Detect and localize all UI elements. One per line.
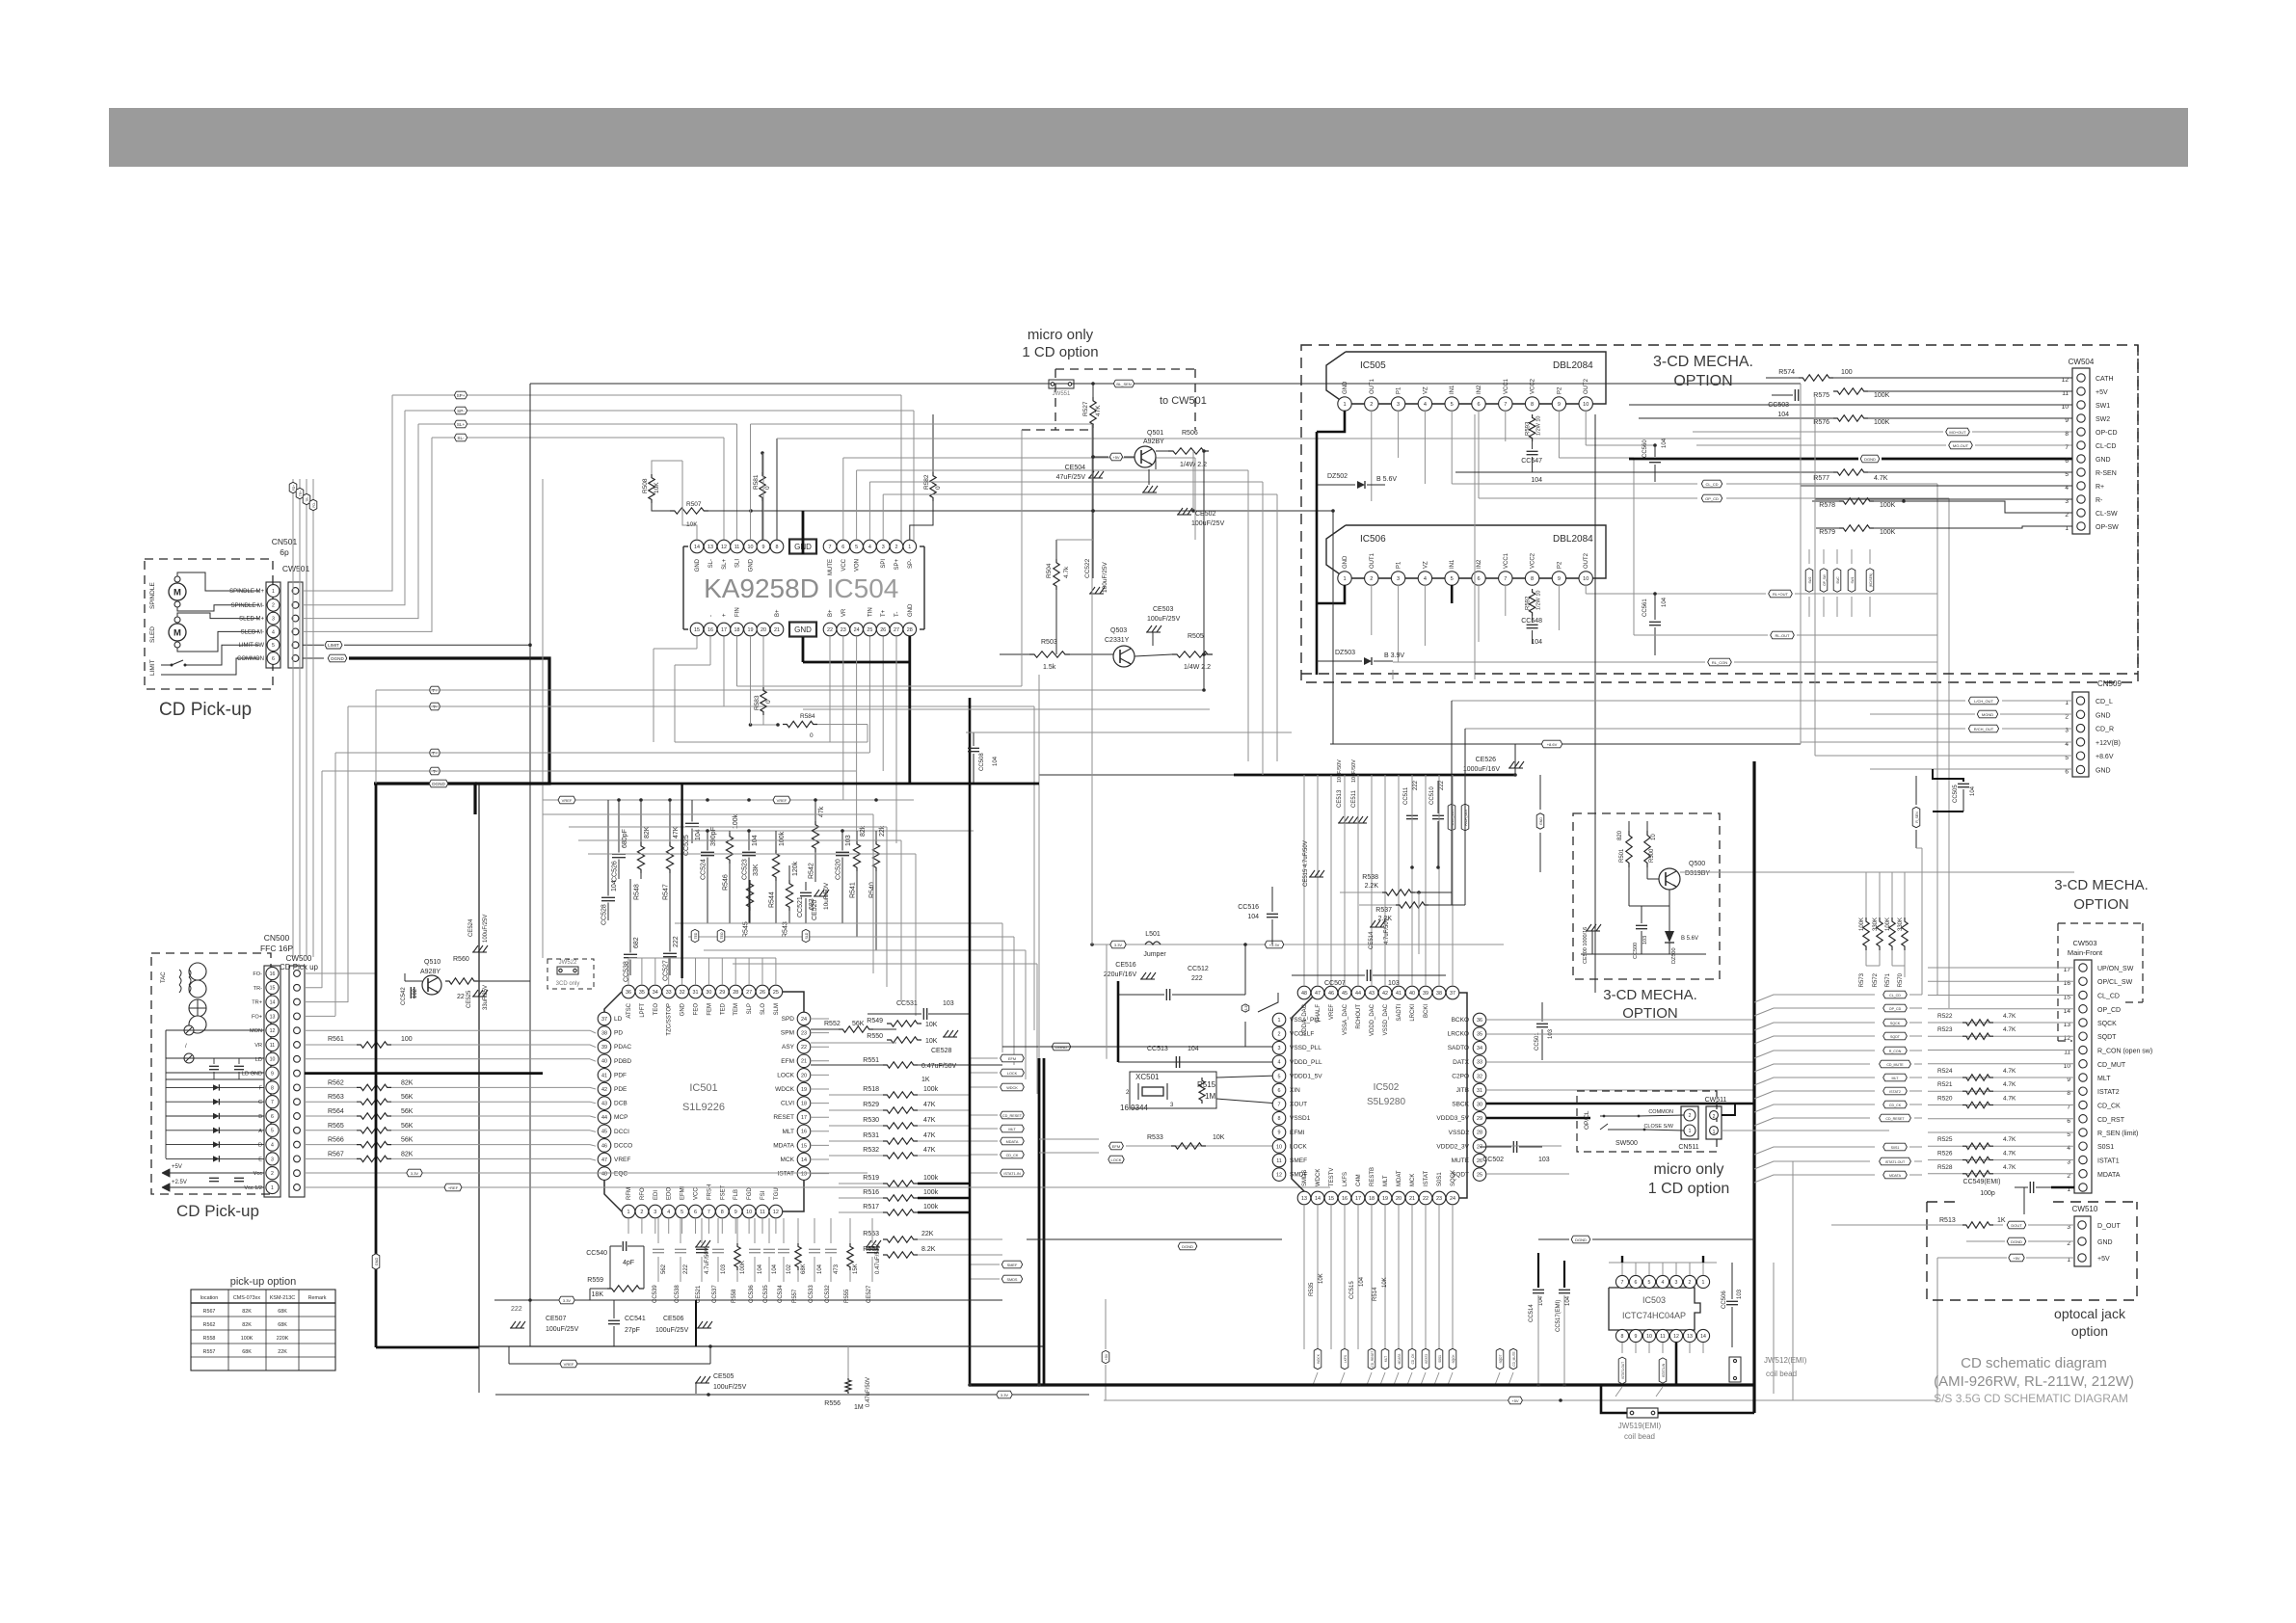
svg-text:DCCO: DCCO — [614, 1142, 632, 1149]
svg-text:CC523: CC523 — [742, 859, 749, 880]
svg-text:4: 4 — [271, 1143, 274, 1149]
net label WDCK — [1314, 1348, 1322, 1369]
photodiode array diodes — [166, 1086, 264, 1088]
svg-text:CC521: CC521 — [797, 896, 804, 918]
svg-text:21: 21 — [801, 1059, 807, 1065]
svg-text:+5V: +5V — [2013, 1256, 2020, 1261]
svg-text:R532: R532 — [863, 1147, 879, 1154]
svg-text:C: C — [258, 1100, 262, 1105]
svg-text:EFM: EFM — [781, 1058, 794, 1065]
bus SL- wire — [432, 437, 724, 439]
svg-text:LIMIT: LIMIT — [328, 643, 339, 648]
svg-text:100uF/25V: 100uF/25V — [655, 1327, 689, 1334]
wire to net label — [1074, 383, 1110, 385]
svg-text:ISTAT2: ISTAT2 — [2097, 1089, 2120, 1096]
svg-text:CC524: CC524 — [701, 859, 707, 880]
net label CD_CK (right column) — [1883, 1101, 1908, 1108]
svg-text:22K: 22K — [278, 1349, 287, 1355]
svg-text:+5V: +5V — [1511, 1398, 1519, 1403]
svg-text:473: 473 — [834, 1264, 840, 1274]
svg-text:4: 4 — [1424, 576, 1427, 582]
svg-text:SQDT: SQDT — [1890, 1035, 1901, 1039]
svg-text:5: 5 — [1451, 576, 1454, 582]
svg-text:VREF: VREF — [562, 798, 573, 803]
svg-text:34: 34 — [653, 990, 658, 996]
net label (MD/SEN) — [1866, 569, 1874, 593]
svg-text:26: 26 — [880, 627, 886, 633]
svg-text:RCHOUT: RCHOUT — [1356, 1004, 1362, 1029]
svg-text:OP/CL_SW: OP/CL_SW — [2097, 979, 2133, 986]
svg-text:ISTAT2: ISTAT2 — [1425, 1354, 1428, 1365]
svg-text:14: 14 — [270, 1000, 276, 1006]
IC504 top pin row 7..1 — [823, 540, 837, 553]
IC504 GND box top — [789, 540, 816, 554]
wire spindle motor to CN501 — [177, 572, 259, 591]
svg-text:R_SEN: R_SEN — [1915, 811, 1919, 823]
svg-text:1: 1 — [908, 545, 911, 550]
svg-text:+2.5V: +2.5V — [172, 1180, 187, 1185]
svg-text:100K: 100K — [241, 1336, 254, 1342]
svg-text:SPM: SPM — [781, 1030, 794, 1037]
svg-text:SLI: SLI — [735, 559, 741, 568]
wires IC505 pins down — [1371, 411, 1373, 501]
resistor R581 0 — [760, 472, 765, 501]
component R555 15K — [849, 1218, 851, 1243]
svg-text:WDCK: WDCK — [1006, 1086, 1018, 1090]
capacitor CC538 682 — [629, 879, 631, 953]
svg-text:VSSD2: VSSD2 — [1449, 1130, 1470, 1136]
svg-text:104: 104 — [817, 1264, 823, 1274]
svg-text:CD_RESET: CD_RESET — [1885, 1117, 1905, 1121]
wires CW504 rows SW1/SW2 — [1629, 404, 2072, 406]
svg-text:LIMIT SW: LIMIT SW — [238, 643, 264, 649]
svg-text:12: 12 — [1276, 1173, 1282, 1179]
net label EFM — [1001, 1054, 1025, 1062]
svg-text:11: 11 — [270, 1043, 275, 1049]
svg-text:SL-: SL- — [457, 436, 465, 440]
svg-text:B+: B+ — [775, 609, 781, 617]
svg-text:56K: 56K — [852, 1021, 865, 1027]
svg-text:100K: 100K — [740, 1261, 746, 1274]
svg-text:8: 8 — [1531, 576, 1534, 582]
net label ISTAT2 — [1422, 1348, 1429, 1369]
net label SW2 — [1805, 569, 1813, 593]
svg-text:IC502: IC502 — [1374, 1082, 1400, 1093]
svg-text:1.5k: 1.5k — [1043, 664, 1056, 671]
svg-text:CE500 1000/16: CE500 1000/16 — [1583, 927, 1589, 964]
svg-text:MDATA: MDATA — [1398, 1353, 1402, 1365]
wires IC504 area horizontals — [751, 423, 1095, 425]
svg-text:R545: R545 — [743, 921, 750, 938]
wire LD GND thick — [305, 1072, 543, 1075]
svg-text:24: 24 — [801, 1017, 807, 1023]
net label T+ (upper) — [429, 686, 440, 694]
svg-text:16: 16 — [707, 627, 713, 633]
svg-text:26: 26 — [1477, 1158, 1482, 1164]
svg-text:FO+: FO+ — [252, 1014, 262, 1020]
bold GND stub bottom — [802, 637, 805, 662]
svg-text:18K: 18K — [592, 1291, 604, 1298]
svg-text:1 CD option: 1 CD option — [1022, 344, 1098, 360]
svg-text:B 3.9V: B 3.9V — [1384, 652, 1404, 659]
svg-text:RL-OUT: RL-OUT — [1775, 633, 1790, 638]
svg-text:1K: 1K — [1997, 1217, 2006, 1224]
net label CD_RESET — [1368, 1348, 1375, 1369]
svg-text:R+: R+ — [2096, 484, 2104, 491]
svg-text:14: 14 — [694, 545, 700, 550]
svg-text:SP+: SP+ — [457, 393, 466, 398]
svg-text:FRSH: FRSH — [707, 1184, 712, 1200]
svg-text:10: 10 — [2062, 404, 2069, 411]
svg-text:1M: 1M — [1205, 1092, 1215, 1101]
svg-text:SW1: SW1 — [2096, 403, 2110, 410]
component CC537 103 — [717, 1218, 719, 1243]
svg-text:R507: R507 — [686, 501, 702, 508]
svg-text:CC526: CC526 — [612, 861, 619, 882]
svg-text:32: 32 — [1477, 1074, 1482, 1079]
svg-text:MLT: MLT — [1383, 1175, 1389, 1186]
svg-text:S0S1: S0S1 — [2097, 1144, 2114, 1151]
long left vertical rail x=550 — [529, 384, 531, 1300]
svg-text:11: 11 — [2062, 390, 2069, 397]
IC502 top pins 48..37 — [1297, 986, 1311, 999]
svg-text:4: 4 — [2065, 485, 2069, 492]
wires from IC501 right pins — [811, 1018, 829, 1020]
svg-text:18: 18 — [1369, 1196, 1375, 1202]
svg-text:30: 30 — [1477, 1103, 1482, 1108]
wire ASY/EFM — [811, 1042, 896, 1044]
svg-text:41: 41 — [601, 1073, 607, 1078]
svg-text:VREF: VREF — [1329, 1004, 1335, 1020]
svg-text:CC520: CC520 — [836, 859, 842, 880]
net label S0S1 (right column) — [1883, 1143, 1908, 1151]
svg-text:35: 35 — [1477, 1032, 1482, 1038]
net label SL+ — [454, 420, 467, 428]
svg-text:SL+: SL+ — [457, 422, 466, 427]
svg-text:3: 3 — [1278, 1046, 1281, 1051]
svg-text:23: 23 — [801, 1031, 807, 1037]
net label DGND right — [1860, 455, 1880, 463]
svg-text:100: 100 — [401, 1036, 413, 1043]
svg-text:10K: 10K — [654, 482, 660, 493]
resistor R544 100k — [775, 831, 777, 850]
svg-text:3.3V: 3.3V — [1001, 1393, 1009, 1397]
svg-text:7: 7 — [2065, 444, 2069, 451]
svg-text:4: 4 — [1424, 402, 1427, 408]
svg-text:10: 10 — [746, 1210, 752, 1215]
svg-text:CE513: CE513 — [1337, 789, 1343, 808]
coil symbols — [179, 970, 181, 977]
svg-text:coil bead: coil bead — [1766, 1370, 1797, 1378]
svg-text:CC500: CC500 — [1633, 943, 1639, 959]
svg-text:JW522: JW522 — [559, 960, 577, 966]
svg-text:0: 0 — [765, 700, 772, 704]
svg-text:MDAT: MDAT — [1397, 1170, 1402, 1186]
svg-text:20: 20 — [1396, 1196, 1402, 1202]
svg-text:TR-: TR- — [254, 986, 262, 992]
net label 3.3V on Vcc — [407, 1169, 422, 1177]
svg-text:104: 104 — [1662, 597, 1668, 607]
svg-text:R583: R583 — [754, 695, 761, 710]
svg-text:+3.3V: +3.3V — [1269, 943, 1280, 947]
net label DOUT — [2007, 1221, 2026, 1229]
svg-text:VCC2: VCC2 — [1531, 378, 1536, 394]
wire IC506 pin1/pin5 thick — [1317, 585, 1345, 603]
net label +5V vertical left — [1102, 1350, 1109, 1363]
svg-text:CL-SW: CL-SW — [2096, 511, 2118, 518]
svg-text:C2331Y: C2331Y — [1105, 637, 1130, 644]
svg-text:21: 21 — [774, 627, 780, 633]
svg-text:23: 23 — [1436, 1196, 1442, 1202]
svg-text:CD Pick-up: CD Pick-up — [176, 1202, 259, 1220]
svg-text:104: 104 — [1538, 1295, 1544, 1306]
svg-text:VREF: VREF — [614, 1157, 630, 1163]
svg-text:S0S1: S0S1 — [1891, 1146, 1900, 1150]
svg-text:WDCK: WDCK — [1316, 1169, 1322, 1186]
svg-text:CC515: CC515 — [1349, 1281, 1355, 1299]
svg-text:33K: 33K — [753, 864, 760, 876]
wires XIN/XOUT — [1216, 1076, 1278, 1078]
svg-text:OUT2: OUT2 — [1584, 552, 1589, 569]
net label 3.3V at L501 — [1110, 941, 1126, 948]
resistor R501 820 — [1626, 831, 1632, 867]
svg-text:10: 10 — [1583, 402, 1589, 408]
svg-text:LIMIT: LIMIT — [149, 659, 156, 676]
svg-text:104: 104 — [1662, 438, 1668, 448]
svg-text:SLED M-: SLED M- — [241, 629, 264, 635]
svg-text:VSSA_DAC: VSSA_DAC — [1343, 1003, 1348, 1035]
svg-text:24: 24 — [854, 627, 860, 633]
svg-text:R-: R- — [2096, 497, 2103, 504]
net label SMEF — [1001, 1261, 1022, 1268]
wire R571/R570 join — [1892, 965, 1905, 967]
svg-text:ISTAT2: ISTAT2 — [1889, 1090, 1901, 1094]
svg-text:23: 23 — [841, 627, 846, 633]
svg-text:TR+: TR+ — [252, 1000, 262, 1006]
svg-text:6: 6 — [1477, 576, 1480, 582]
junction dots assorted — [1091, 455, 1095, 459]
net label SWC — [1833, 569, 1841, 593]
dashed enclosure CD Pick-up (spindle/sled) — [145, 559, 273, 689]
wire CL_CD vertical to CW503 column — [1936, 484, 1938, 995]
thick ground rail y=813 — [475, 783, 1039, 785]
svg-text:CC506: CC506 — [1722, 1290, 1727, 1309]
resistor R547 47K — [669, 800, 671, 842]
long verticals right side — [1800, 384, 1802, 744]
svg-text:104: 104 — [1777, 412, 1789, 418]
svg-text:4.7K: 4.7K — [2003, 1026, 2016, 1033]
IC501 right pins 24..13 — [797, 1012, 811, 1025]
dashed enclosure 3-CD MECHA OPTION (middle) — [1573, 813, 1720, 979]
svg-text:4: 4 — [1662, 1280, 1665, 1286]
svg-text:OPTION: OPTION — [2073, 896, 2129, 913]
svg-text:CD_RST: CD_RST — [2097, 1117, 2125, 1124]
svg-text:R524: R524 — [1937, 1068, 1953, 1075]
net label MGND — [1977, 710, 1997, 718]
svg-text:BL_SEN: BL_SEN — [1116, 382, 1131, 386]
svg-text:R562: R562 — [328, 1079, 344, 1086]
svg-text:SP-: SP- — [908, 559, 914, 569]
svg-text:1K: 1K — [921, 1077, 930, 1083]
svg-text:CE507: CE507 — [546, 1316, 567, 1322]
svg-text:GND: GND — [794, 625, 812, 634]
net label VREF bottom — [560, 1360, 577, 1368]
svg-text:OPTION: OPTION — [1673, 373, 1732, 389]
svg-text:WDCK: WDCK — [775, 1086, 795, 1093]
svg-text:CD_L: CD_L — [2096, 699, 2113, 705]
svg-text:37: 37 — [601, 1017, 607, 1023]
svg-text:3.3V: 3.3V — [411, 1171, 419, 1176]
svg-text:R555: R555 — [844, 1289, 850, 1303]
svg-text:UP/ON_SW: UP/ON_SW — [2097, 966, 2134, 972]
net label CD_CK — [1408, 1348, 1416, 1369]
wires from IC504 right to IC502 columns — [1194, 458, 1196, 540]
svg-text:2: 2 — [1278, 1032, 1281, 1038]
net label BL_SEN — [1113, 380, 1134, 387]
svg-text:FLB: FLB — [734, 1189, 739, 1200]
svg-text:5: 5 — [1278, 1074, 1281, 1079]
connector CN500 (16p) — [264, 966, 280, 1197]
svg-text:9: 9 — [2065, 417, 2069, 424]
svg-text:100uF/25V: 100uF/25V — [1102, 562, 1108, 593]
wire SP+ drop to IC504 pin2 — [900, 395, 902, 546]
svg-text:10: 10 — [1646, 1334, 1652, 1340]
svg-text:5: 5 — [2065, 471, 2069, 478]
svg-text:+REF: +REF — [448, 1185, 459, 1190]
svg-text:68K: 68K — [801, 1264, 807, 1274]
svg-text:FO-: FO- — [253, 971, 262, 977]
wires CW511 right — [1722, 1104, 1735, 1115]
net label T- (lower) — [429, 767, 440, 775]
svg-text:45: 45 — [1342, 991, 1348, 997]
svg-text:CD_MUTE: CD_MUTE — [1886, 1063, 1904, 1067]
svg-text:47: 47 — [601, 1157, 607, 1163]
svg-text:CN511: CN511 — [1678, 1144, 1698, 1151]
svg-text:ISTAT: ISTAT — [1424, 1171, 1429, 1186]
svg-text:SQCK: SQCK — [1452, 1354, 1455, 1364]
svg-text:17: 17 — [801, 1115, 807, 1121]
svg-text:2: 2 — [1370, 402, 1373, 408]
svg-text:CD_RESET: CD_RESET — [1371, 1350, 1375, 1367]
photodiode cluster — [189, 963, 206, 980]
svg-text:R528: R528 — [1937, 1164, 1953, 1171]
svg-text:SW500: SW500 — [1615, 1140, 1638, 1147]
svg-text:CL_CD: CL_CD — [1705, 482, 1718, 487]
svg-text:JW551: JW551 — [1053, 391, 1071, 397]
svg-text:EDI: EDI — [654, 1190, 659, 1200]
svg-text:222: 222 — [1439, 780, 1445, 790]
svg-text:R522: R522 — [1937, 1013, 1953, 1020]
svg-text:5: 5 — [1451, 402, 1454, 408]
svg-text:220K: 220K — [277, 1336, 289, 1342]
net label EFM to IC502 — [1109, 1142, 1124, 1150]
wire from R_SEN down — [1916, 847, 1922, 849]
resistor R540 22k — [875, 831, 877, 840]
svg-text:SADTO: SADTO — [1448, 1045, 1469, 1051]
svg-text:micro only: micro only — [1028, 327, 1094, 343]
svg-text:+12V(B): +12V(B) — [2096, 740, 2121, 747]
svg-text:LKFS: LKFS — [1343, 1172, 1348, 1186]
svg-text:47k: 47k — [818, 806, 825, 817]
net label R/CH_OUT — [1968, 725, 1998, 732]
svg-text:9: 9 — [1278, 1131, 1281, 1136]
svg-text:CW503: CW503 — [2072, 939, 2096, 947]
svg-text:LPFT: LPFT — [640, 1003, 646, 1018]
svg-text:R553: R553 — [863, 1231, 879, 1237]
svg-text:OUT1: OUT1 — [1370, 378, 1375, 394]
svg-text:T-: T- — [894, 612, 900, 617]
net label R_SEN vertical — [1912, 807, 1920, 827]
svg-text:RESET: RESET — [773, 1114, 794, 1121]
svg-text:CD_CK: CD_CK — [1889, 1104, 1902, 1107]
svg-text:TED: TED — [694, 932, 698, 939]
svg-text:10: 10 — [1583, 576, 1589, 582]
svg-text:10K: 10K — [925, 1038, 938, 1045]
vertical bus x=1078 thick — [1038, 1058, 1041, 1385]
wires IC506 pins down — [1371, 585, 1373, 635]
svg-text:10uF/50V: 10uF/50V — [1337, 759, 1343, 783]
svg-text:29: 29 — [719, 990, 725, 996]
svg-text:R541: R541 — [850, 882, 857, 898]
svg-text:R559: R559 — [587, 1277, 603, 1284]
svg-text:VDDD_DAC: VDDD_DAC — [1370, 1003, 1375, 1036]
svg-text:R593: R593 — [1526, 421, 1532, 436]
svg-text:CC512: CC512 — [1188, 966, 1209, 972]
svg-text:SMDS: SMDS — [1302, 1170, 1308, 1186]
svg-text:-: - — [708, 615, 714, 617]
connector CW504 (12p) — [2072, 368, 2090, 534]
svg-text:R556: R556 — [824, 1400, 841, 1407]
svg-text:2: 2 — [1713, 1114, 1716, 1120]
svg-text:7: 7 — [1504, 402, 1507, 408]
svg-text:10uF/50V: 10uF/50V — [1351, 759, 1357, 783]
svg-text:R508: R508 — [642, 478, 649, 493]
svg-text:SW2: SW2 — [1808, 576, 1812, 583]
svg-text:+5V: +5V — [1105, 1353, 1108, 1360]
step wires under passives — [675, 922, 1002, 924]
svg-text:Vcc 1/2: Vcc 1/2 — [244, 1185, 262, 1191]
connector CW510 (3p) — [2074, 1216, 2091, 1266]
svg-text:E: E — [258, 1157, 262, 1162]
rail L501 3.3V — [1092, 944, 1504, 945]
svg-text:R557: R557 — [203, 1349, 216, 1355]
svg-text:PDF: PDF — [614, 1072, 627, 1078]
svg-text:LD GND: LD GND — [242, 1072, 262, 1078]
wire R501 to node — [1628, 867, 1630, 906]
svg-text:MON: MON — [250, 1028, 262, 1034]
svg-text:RL_CON: RL_CON — [1712, 660, 1727, 665]
svg-text:100K: 100K — [1880, 529, 1896, 536]
thick SBCK wire — [1486, 1103, 1754, 1105]
svg-text:0: 0 — [764, 486, 771, 490]
svg-text:DGND: DGND — [2011, 1239, 2022, 1244]
svg-text:+: + — [722, 613, 728, 617]
capacitor CE505 100uF/25V — [696, 1376, 701, 1383]
IC driver IC505 DBL2084 body — [1326, 352, 1606, 404]
svg-text:820: 820 — [1617, 830, 1623, 840]
svg-text:Vcc: Vcc — [254, 1171, 263, 1177]
net label ISTAT1-IN — [1001, 1169, 1025, 1177]
svg-text:42: 42 — [1382, 991, 1388, 997]
svg-text:10K: 10K — [925, 1022, 938, 1028]
svg-text:LD: LD — [614, 1016, 623, 1023]
svg-text:ISTAT1: ISTAT1 — [2097, 1158, 2120, 1165]
svg-text:R527: R527 — [1082, 401, 1089, 416]
component CE527 0.47uF/50V — [871, 1218, 873, 1243]
svg-text:100k: 100k — [923, 1175, 939, 1182]
IC504 bottom pin row 22..28 — [823, 623, 837, 636]
svg-text:8: 8 — [776, 545, 779, 550]
